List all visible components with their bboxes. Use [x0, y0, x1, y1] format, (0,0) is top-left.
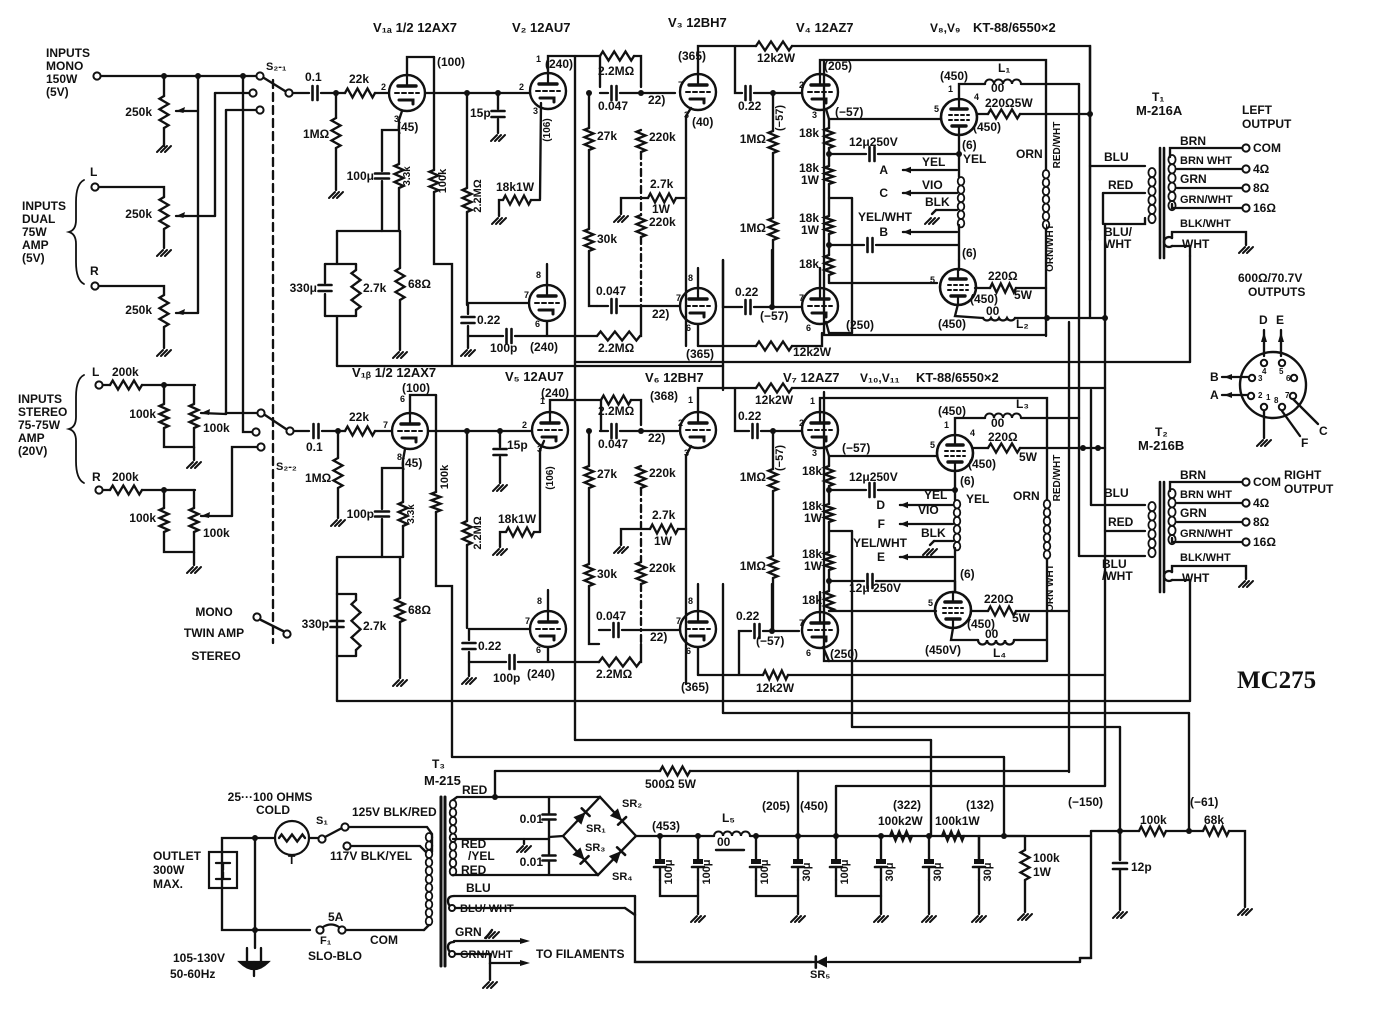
- svg-text:(−57): (−57): [842, 441, 870, 455]
- wire fb box bottom: [325, 315, 356, 317]
- potentiometer 100k stereo R: [190, 508, 199, 532]
- node j1105-318: [1102, 315, 1108, 321]
- ground 0.22 chA: [461, 350, 475, 356]
- svg-text:(−57): (−57): [835, 105, 863, 119]
- svg-text:8: 8: [1274, 396, 1279, 405]
- svg-text:1: 1: [688, 395, 693, 405]
- svg-text:100μ: 100μ: [701, 859, 713, 884]
- wire V9 plate down: [955, 304, 983, 318]
- capacitor 12u lower chB: [866, 574, 869, 588]
- svg-text:100k: 100k: [437, 168, 449, 193]
- capacitor 12u chA: [868, 147, 871, 161]
- wire cathode bottom bus chA: [337, 230, 400, 232]
- svg-text:300W: 300W: [153, 863, 185, 877]
- capacitor 0.22 lower chA: [744, 300, 747, 314]
- svg-text:GRN: GRN: [455, 925, 482, 939]
- capacitor 0.047 lower chB: [612, 623, 615, 637]
- svg-text:30k: 30k: [597, 567, 617, 581]
- resistor 2.2M bot chB: [599, 658, 640, 667]
- inductor L1 chA: [985, 80, 1021, 85]
- resistor 12k2W top chA: [756, 42, 792, 51]
- transformer T3 GRN winding: [448, 942, 456, 954]
- svg-text:(132): (132): [966, 798, 994, 812]
- wire V1A plate load 100k: [433, 57, 435, 170]
- wire 15p chB gnd: [499, 457, 501, 483]
- wire screen V8: [977, 113, 988, 115]
- node tap154: [826, 151, 832, 157]
- inductor L5: [714, 832, 750, 836]
- svg-text:117V BLK/YEL: 117V BLK/YEL: [330, 849, 412, 863]
- tube V6 12BH7 upper: [680, 412, 716, 448]
- svg-text:MAX.: MAX.: [153, 877, 183, 891]
- wire 27k chain top chB: [588, 431, 590, 466]
- bus y701: [337, 700, 1190, 702]
- svg-text:(6): (6): [960, 474, 975, 488]
- wire 18k1W left gnd: [499, 200, 503, 216]
- wire 15p top: [497, 93, 499, 109]
- bus x1091 blu: [1090, 390, 1092, 505]
- svg-text:(6): (6): [962, 246, 977, 260]
- wire T1 to fb loop: [1189, 256, 1191, 362]
- wire BLU chB: [1091, 504, 1145, 506]
- svg-text:BLU: BLU: [1104, 486, 1129, 500]
- wire winding to cathode lower B: [954, 548, 956, 592]
- svg-text:3: 3: [812, 110, 817, 120]
- wire 0.047 lower left: [597, 305, 608, 307]
- svg-text:YEL/WHT: YEL/WHT: [858, 210, 913, 224]
- resistor 100k bias: [1139, 827, 1166, 836]
- svg-text:BRN: BRN: [1180, 468, 1206, 482]
- svg-text:22k: 22k: [349, 410, 369, 424]
- wire 220 V9 to bus: [1016, 287, 1046, 289]
- wire V4b plate up: [819, 268, 821, 288]
- svg-text:100k: 100k: [439, 464, 451, 489]
- socket pin 4: [1261, 360, 1267, 366]
- wire S2-1 mid to bus: [215, 92, 249, 94]
- svg-text:8Ω: 8Ω: [1253, 515, 1270, 529]
- wire V6 cathode to bot: [685, 529, 687, 684]
- input terminal MONO: [93, 72, 100, 79]
- svg-text:12k2W: 12k2W: [755, 393, 794, 407]
- svg-text:T₃: T₃: [432, 757, 445, 771]
- capacitor 0.1 chA: [311, 86, 314, 100]
- svg-text:WHT: WHT: [1182, 571, 1210, 585]
- wire fb box left2 chB: [336, 594, 338, 656]
- inductor L3 chB: [985, 414, 1021, 418]
- svg-text:330μ: 330μ: [290, 281, 317, 295]
- svg-text:(240): (240): [545, 57, 573, 71]
- wire GRNWHT line: [456, 953, 490, 955]
- capacitor 15p chA: [492, 110, 505, 113]
- svg-text:V₅ 12AU7: V₅ 12AU7: [505, 369, 564, 384]
- wire ORN col down chB: [1046, 559, 1048, 661]
- svg-text:(−150): (−150): [1068, 795, 1103, 809]
- svg-text:C: C: [1319, 424, 1328, 438]
- wire 18k1W left gnd chB: [500, 532, 506, 547]
- svg-text:SR₂: SR₂: [622, 798, 642, 810]
- svg-text:E: E: [877, 550, 885, 564]
- tube V9 KT88: [940, 269, 976, 305]
- svg-text:RED: RED: [462, 783, 488, 797]
- wire fb box down chA: [336, 316, 338, 366]
- winding cathode B col: [954, 500, 961, 508]
- bus x1120 -150: [1119, 727, 1121, 860]
- svg-text:25···100 OHMS: 25···100 OHMS: [228, 790, 313, 804]
- svg-text:(106): (106): [545, 466, 556, 489]
- capacitor 100p chB2: [508, 655, 511, 669]
- potentiometer 250k dual R: [160, 295, 169, 327]
- tap BLK wire: [936, 209, 957, 211]
- ground dual L pot: [157, 250, 171, 256]
- wire 0.047 lower right: [620, 305, 680, 307]
- tube V6 12BH7 lower: [680, 611, 716, 647]
- svg-text:1W: 1W: [801, 173, 820, 187]
- svg-text:OUTLET: OUTLET: [153, 849, 202, 863]
- svg-text:100μ: 100μ: [347, 169, 374, 183]
- svg-text:F₁: F₁: [320, 935, 332, 947]
- wire 0.01b bot: [548, 861, 550, 875]
- svg-text:SLO-BLO: SLO-BLO: [308, 949, 362, 963]
- node j255: [252, 835, 258, 841]
- wire 0.22 lower right chB: [763, 630, 799, 632]
- wire 12u lower right chB: [876, 580, 954, 582]
- bus y757: [452, 756, 1004, 758]
- svg-text:75W: 75W: [22, 225, 47, 239]
- svg-text:100k2W: 100k2W: [878, 814, 923, 828]
- wire outlet top to thermistor: [222, 838, 275, 852]
- svg-text:6: 6: [686, 646, 691, 656]
- node j829-581: [826, 578, 832, 584]
- capacitor 0.22 chA: [744, 86, 747, 100]
- ground 1M chB: [331, 520, 345, 526]
- bus y727 bias: [852, 726, 1120, 728]
- node j641 chA: [638, 90, 644, 96]
- resistor 220ohm V10: [988, 444, 1020, 453]
- ground 1M chA: [329, 192, 343, 198]
- svg-text:8: 8: [688, 596, 693, 606]
- winding cathode A col: [958, 177, 965, 185]
- resistor 2.7k fb chB: [352, 600, 361, 650]
- svg-text:7: 7: [799, 618, 804, 628]
- wire V2 cathode down: [540, 103, 541, 199]
- svg-text:B: B: [1210, 370, 1219, 384]
- svg-text:D: D: [876, 498, 885, 512]
- svg-text:INPUTS: INPUTS: [46, 46, 90, 60]
- wire V10 plate up: [955, 418, 985, 435]
- wire plate tap down: [735, 46, 742, 93]
- resistor 18k1W chB: [506, 528, 534, 537]
- fuse F1: [316, 926, 323, 933]
- ground 2.7k1W chA: [614, 216, 628, 222]
- wire dual L to pot: [99, 187, 164, 197]
- socket pin 8: [1279, 404, 1285, 410]
- svg-text:6: 6: [536, 645, 541, 655]
- wire 30k down: [589, 251, 597, 306]
- svg-text:BLU: BLU: [466, 881, 491, 895]
- svg-text:1W: 1W: [804, 511, 823, 525]
- wire BRNWHT to 4ohm R: [1177, 502, 1242, 504]
- wire fb box top: [325, 263, 356, 265]
- wire cathode V5b: [547, 647, 549, 662]
- svg-text:C: C: [879, 186, 888, 200]
- svg-text:22): 22): [648, 431, 665, 445]
- wire cap6 gnd: [978, 880, 980, 914]
- resistor 100k1W: [942, 832, 964, 841]
- svg-text:D: D: [1259, 313, 1268, 327]
- wire stereo L gnd stub: [193, 447, 195, 460]
- svg-text:1W: 1W: [1033, 865, 1052, 879]
- svg-text:220k: 220k: [649, 130, 676, 144]
- resistor 18k 3 chA: [825, 216, 834, 234]
- svg-text:SR₅: SR₅: [810, 969, 830, 981]
- wire cap5 gnd: [928, 880, 930, 914]
- capacitor 100p V1B: [375, 510, 389, 513]
- node j589 chB: [586, 428, 592, 434]
- tube V2 12AU7 lower: [529, 285, 565, 321]
- wire 500ohm right: [690, 770, 1069, 772]
- wire 125V tap: [349, 827, 432, 852]
- svg-text:MONO: MONO: [195, 605, 232, 619]
- resistor 30k chB: [585, 564, 594, 586]
- wire 0.22 lower left: [723, 260, 742, 307]
- svg-text:1MΩ: 1MΩ: [740, 132, 767, 146]
- transformer T3 BLU winding: [448, 896, 456, 908]
- ground 100k last: [1018, 914, 1032, 920]
- transformer T3 primary coil: [426, 833, 433, 841]
- wire primary bottom: [424, 925, 429, 930]
- svg-text:/WHT: /WHT: [1102, 569, 1133, 583]
- svg-text:100k: 100k: [203, 526, 230, 540]
- wire bridge cap2 gnd: [697, 880, 699, 914]
- wire V1B plate to V5 grid: [428, 430, 531, 432]
- wire V2b grid: [468, 302, 529, 304]
- wire 3.3k chB down: [402, 526, 404, 557]
- svg-text:18k: 18k: [799, 126, 819, 140]
- transformer T1 primary coil: [1148, 168, 1155, 177]
- resistor 2.2M bot chA: [597, 332, 640, 341]
- output terminal 16ohm left: [1242, 204, 1249, 211]
- wire E arrow: [1280, 330, 1282, 356]
- brace stereo inputs: [69, 375, 84, 483]
- switch S2-1 contact bottom: [256, 106, 263, 113]
- resistor 30k chA: [585, 229, 594, 251]
- svg-text:T₁: T₁: [1152, 90, 1164, 104]
- bus y366: [337, 365, 723, 367]
- svg-text:AMP: AMP: [22, 238, 49, 252]
- capacitor 0.01 lower: [543, 854, 556, 857]
- resistor 18k 1 chA: [825, 128, 834, 148]
- node j1090-114: [1087, 111, 1093, 117]
- wire grid feed upper KT88: [829, 118, 941, 120]
- wire BLKWHT loop R: [1172, 566, 1246, 579]
- capacitor 0.047 upper chA: [610, 86, 613, 100]
- switch S2-1 arm: [264, 78, 285, 91]
- svg-text:4: 4: [1262, 367, 1267, 376]
- wire bias tap chB: [829, 530, 852, 532]
- output terminal 8ohm right: [1242, 518, 1249, 525]
- svg-text:ORN: ORN: [1013, 489, 1040, 503]
- svg-text:6: 6: [806, 323, 811, 333]
- svg-text:105-130V: 105-130V: [173, 951, 225, 965]
- svg-text:6: 6: [535, 319, 540, 329]
- bus x1189 -61: [1188, 713, 1190, 831]
- wire V6 cathode down: [686, 446, 691, 529]
- wire HV center tap: [453, 838, 549, 840]
- wire SR5 up right: [1080, 958, 1091, 962]
- svg-text:(450): (450): [938, 317, 966, 331]
- svg-text:8: 8: [537, 596, 542, 606]
- wire BRNWHT to 4ohm: [1177, 168, 1242, 170]
- svg-text:30μ: 30μ: [884, 863, 896, 882]
- svg-text:BRN WHT: BRN WHT: [1180, 155, 1232, 167]
- svg-text:0.047: 0.047: [596, 609, 626, 623]
- resistor 22k chA: [345, 89, 375, 98]
- svg-text:8: 8: [688, 273, 693, 283]
- svg-text:2.7k: 2.7k: [650, 177, 674, 191]
- socket pin 1: [1261, 404, 1267, 410]
- svg-text:1: 1: [810, 396, 815, 406]
- input terminal STEREO L: [95, 381, 102, 388]
- svg-text:00: 00: [991, 416, 1005, 430]
- svg-text:0.047: 0.047: [598, 437, 628, 451]
- tube V7 12AZ7 lower: [802, 612, 838, 648]
- svg-text:2.7k: 2.7k: [652, 508, 676, 522]
- dashdot 220k link2 chB: [640, 584, 642, 644]
- svg-text:V₁ₐ 1/2 12AX7: V₁ₐ 1/2 12AX7: [373, 20, 457, 35]
- wire 18k chain a chB: [828, 486, 830, 504]
- resistor 27k chB: [585, 466, 594, 488]
- wire 0.22 to V4 grid: [754, 92, 802, 94]
- outlet socket: [209, 852, 237, 888]
- bus y786 450feed: [836, 785, 1105, 787]
- wire grid feed upper KT88 chB: [829, 455, 937, 457]
- resistor 220ohm V11: [988, 607, 1016, 616]
- svg-text:2: 2: [522, 420, 527, 430]
- wire V4 cathode: [826, 109, 829, 119]
- ground 18k1W chB: [493, 549, 507, 555]
- node stereo L junction: [161, 382, 167, 388]
- ground 68ohm chA: [393, 352, 407, 358]
- svg-text:0.22: 0.22: [738, 409, 762, 423]
- svg-text:100k: 100k: [203, 421, 230, 435]
- svg-text:(−57): (−57): [756, 634, 784, 648]
- wire BLKWHT loop: [1172, 232, 1246, 245]
- svg-text:WHT: WHT: [1104, 237, 1132, 251]
- svg-text:(205): (205): [762, 799, 790, 813]
- svg-text:1MΩ: 1MΩ: [305, 471, 332, 485]
- ground 68k: [1238, 909, 1252, 915]
- wire V2b plate up: [546, 264, 548, 285]
- wire 100u top: [382, 130, 399, 171]
- socket pin 3: [1249, 375, 1255, 381]
- resistor 100k stereo L shunt: [160, 404, 169, 428]
- wire 27k to 30k: [588, 150, 590, 229]
- svg-text:TWIN AMP: TWIN AMP: [184, 626, 244, 640]
- box kt88B outline: [824, 392, 1046, 661]
- wire V6b cathode: [697, 647, 699, 675]
- node j660: [657, 833, 663, 839]
- wire 30k down chB: [589, 586, 599, 644]
- wire outlet left drop: [222, 852, 310, 930]
- svg-text:RED: RED: [1108, 515, 1134, 529]
- node j829-245: [826, 242, 832, 248]
- wire 2.7k1W right chB: [678, 528, 686, 530]
- wire 0.22 stub chB: [468, 629, 470, 640]
- svg-text:100p: 100p: [493, 671, 520, 685]
- svg-text:30μ: 30μ: [982, 863, 994, 882]
- input terminal DUAL L: [91, 183, 98, 190]
- tube V7 12AZ7 upper: [802, 412, 838, 448]
- wire BLU chA: [1090, 165, 1145, 167]
- wire -57 down to 1M: [772, 93, 774, 131]
- wire fb box left chB: [336, 557, 338, 594]
- svg-text:T: T: [288, 853, 296, 867]
- resistor 220ohm V9: [990, 284, 1016, 293]
- svg-text:12k2W: 12k2W: [756, 681, 795, 695]
- wire V3 cathode to 346: [685, 198, 687, 346]
- svg-text:00: 00: [985, 627, 999, 641]
- svg-text:2: 2: [381, 82, 386, 92]
- svg-text:1MΩ: 1MΩ: [740, 221, 767, 235]
- wire 0.047 upper wire: [600, 92, 608, 94]
- wire 15p chB top: [499, 431, 501, 447]
- diode SR2: [610, 808, 626, 824]
- diode SR3: [572, 847, 588, 863]
- dashed gang line S2: [272, 80, 274, 643]
- svg-text:22): 22): [652, 307, 669, 321]
- wire BLUWHT chA: [1104, 218, 1145, 224]
- wire plate tap down chB: [735, 388, 749, 431]
- svg-text:220k: 220k: [649, 466, 676, 480]
- svg-text:100k1W: 100k1W: [935, 814, 980, 828]
- svg-text:1: 1: [944, 420, 949, 430]
- capacitor C 30u no1: [793, 859, 803, 864]
- wire fil ct: [489, 963, 491, 980]
- bus x931 down: [930, 740, 932, 836]
- wire -57 down to 1M chB: [772, 431, 774, 469]
- ground T2 tertiary: [1239, 581, 1253, 587]
- wire fb box stem: [336, 231, 338, 264]
- wire 3.3k to bottom: [398, 188, 400, 231]
- tap BLK wire B: [934, 540, 953, 542]
- thermistor T: [275, 821, 309, 855]
- wire HV top: [453, 797, 600, 800]
- svg-text:YEL: YEL: [966, 492, 989, 506]
- ground cap6: [972, 916, 986, 922]
- wire V4 plate up: [820, 60, 1046, 170]
- svg-text:L₄: L₄: [993, 646, 1006, 660]
- terminal GRN/WHT: [449, 951, 455, 957]
- resistor 18k 4 chB: [825, 591, 834, 611]
- wire cap to 22k chB: [322, 430, 345, 432]
- capacitor 12u lower chA: [866, 238, 869, 252]
- svg-text:2: 2: [1258, 391, 1263, 400]
- wire 15p gnd: [497, 119, 499, 133]
- bus x1079: [1078, 84, 1080, 556]
- wiper stereo L pot: [201, 413, 226, 414]
- resistor 1M upper chA: [769, 131, 778, 153]
- wire BLUWHT line: [456, 907, 625, 909]
- wire V11 plate down: [951, 628, 978, 640]
- svg-text:100k: 100k: [129, 407, 156, 421]
- svg-text:B: B: [879, 225, 888, 239]
- bus x723 chA: [722, 260, 724, 390]
- resistor 12k2W bot chA: [756, 342, 792, 351]
- svg-text:0.01: 0.01: [520, 855, 544, 869]
- resistor 18k 2 chB: [825, 504, 834, 522]
- wire 27k to 30k chB: [588, 488, 590, 564]
- capacitor C 30u no3: [924, 859, 934, 864]
